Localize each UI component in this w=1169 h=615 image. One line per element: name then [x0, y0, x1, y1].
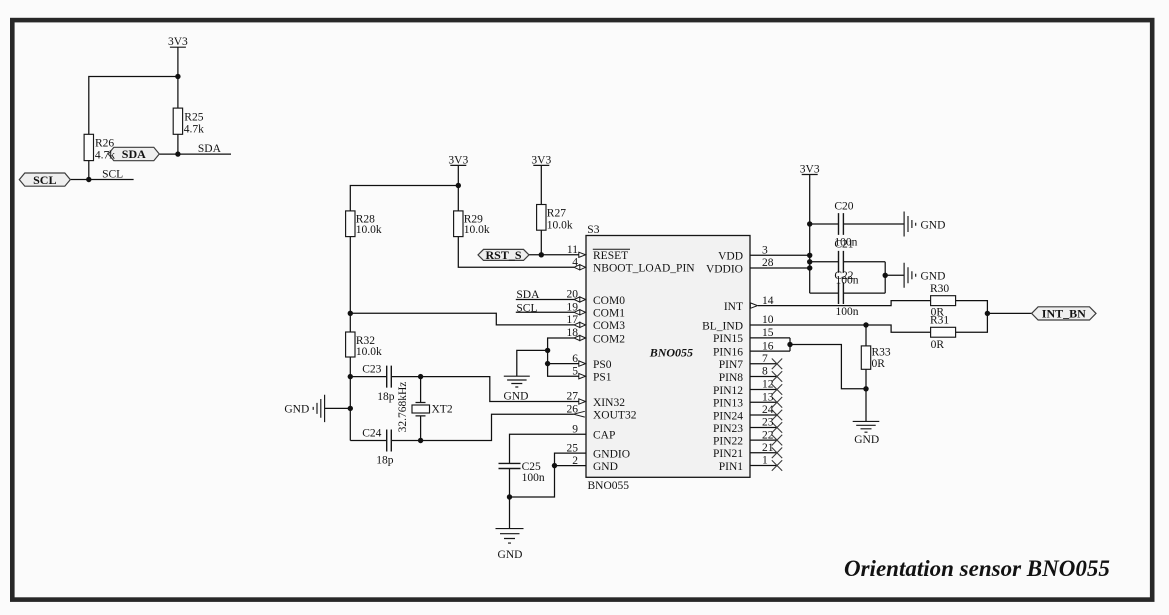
- wire 3V3 stem to rail (top-left): [177, 47, 179, 76]
- wire C21 left: [810, 261, 839, 263]
- svg-text:18: 18: [567, 327, 579, 339]
- svg-text:XOUT32: XOUT32: [593, 410, 637, 422]
- svg-text:5: 5: [572, 365, 578, 377]
- wire R25 top: [177, 77, 179, 109]
- svg-text:16: 16: [762, 340, 774, 352]
- svg-text:SDA: SDA: [516, 289, 540, 301]
- svg-text:10.0k: 10.0k: [464, 224, 490, 236]
- pin arrow out XOUT32 pin 26: [574, 411, 585, 417]
- port SDA: [108, 147, 159, 161]
- wire C22 left: [810, 292, 839, 294]
- svg-text:GND: GND: [504, 390, 529, 402]
- svg-text:10.0k: 10.0k: [356, 224, 382, 236]
- svg-text:R25: R25: [184, 112, 203, 124]
- wire BL_IND pin 10 to R31: [750, 325, 931, 332]
- wire VDDIO pin 28 stub: [750, 267, 810, 269]
- wire C23 right to XIN32 pin 27: [391, 377, 579, 402]
- op-amp U1 IC S3 BNO055 body: [586, 236, 750, 478]
- svg-text:R32: R32: [356, 335, 375, 347]
- wire GND tap (C22 bus): [885, 274, 904, 276]
- svg-text:PIN15: PIN15: [713, 333, 743, 345]
- svg-text:3: 3: [762, 245, 768, 257]
- wire C20 left: [810, 223, 839, 225]
- wire C21 right: [843, 261, 885, 263]
- svg-text:COM2: COM2: [593, 333, 625, 345]
- svg-text:INT: INT: [724, 301, 743, 313]
- svg-text:R31: R31: [930, 315, 949, 327]
- svg-text:4.7k: 4.7k: [95, 150, 115, 162]
- wire PIN15-PIN16 tie: [789, 338, 791, 351]
- svg-text:PIN1: PIN1: [719, 461, 744, 473]
- svg-text:8: 8: [762, 366, 768, 378]
- svg-text:7: 7: [762, 353, 768, 365]
- wire R29 top: [457, 186, 459, 211]
- wire RST_S to pin 11: [529, 254, 579, 256]
- svg-text:10: 10: [762, 314, 774, 326]
- svg-text:27: 27: [567, 391, 579, 403]
- wire C25 bottom: [509, 469, 511, 498]
- pin name RESET with overline: [593, 249, 630, 262]
- wire rail 3V3 to R26 branch: [89, 77, 178, 135]
- wire C25 node to ground: [509, 497, 511, 529]
- wire C21-C22 right bus: [884, 262, 886, 293]
- no-connect X marks pins 7 8 12 13 24 23 22 21 1: [772, 359, 782, 471]
- svg-text:R30: R30: [930, 283, 949, 295]
- wire PIN23 stub: [750, 427, 777, 429]
- svg-text:GND: GND: [284, 403, 309, 415]
- svg-text:PIN13: PIN13: [713, 398, 743, 410]
- svg-text:10.0k: 10.0k: [547, 219, 573, 231]
- svg-text:6: 6: [572, 353, 578, 365]
- wire R29 bottom to NBOOT_LOAD_PIN pin 4: [458, 237, 574, 268]
- svg-text:CAP: CAP: [593, 430, 615, 442]
- svg-text:BL_IND: BL_IND: [702, 320, 743, 332]
- svg-text:SCL: SCL: [102, 168, 123, 180]
- svg-text:19: 19: [567, 302, 579, 314]
- svg-text:COM3: COM3: [593, 320, 625, 332]
- svg-text:11: 11: [567, 244, 578, 256]
- ground (right of C20): [904, 212, 916, 237]
- wire C23 left: [350, 376, 386, 378]
- svg-text:100n: 100n: [522, 472, 545, 484]
- capacitor C23 plates: [387, 366, 392, 388]
- svg-text:GND: GND: [593, 461, 618, 473]
- svg-text:RST_S: RST_S: [485, 248, 521, 262]
- wire PIN8 stub: [750, 376, 777, 378]
- svg-text:28: 28: [762, 257, 774, 269]
- svg-text:3V3: 3V3: [531, 154, 551, 166]
- svg-text:C23: C23: [362, 364, 381, 376]
- resistor R26: [84, 134, 93, 160]
- svg-text:C21: C21: [834, 239, 853, 251]
- svg-text:PIN24: PIN24: [713, 410, 743, 422]
- wire 3V3 stem down decoupling bus: [809, 175, 811, 294]
- svg-text:PIN21: PIN21: [713, 448, 743, 460]
- svg-text:R27: R27: [547, 207, 566, 219]
- resistor R29: [454, 211, 463, 237]
- wire VDD pin 3 stub: [750, 254, 810, 256]
- svg-text:1: 1: [762, 455, 768, 467]
- wire XT2 bottom: [420, 416, 422, 441]
- svg-text:PIN12: PIN12: [713, 385, 743, 397]
- pin arrows input left side: [579, 252, 586, 404]
- wire GND branch (PS bus): [517, 350, 548, 376]
- power 3V3 (top-left): [168, 36, 188, 48]
- power 3V3 (over R27): [531, 154, 551, 166]
- ground (under R33): [853, 421, 880, 432]
- wire PIN16 net to R33 ground node: [790, 345, 866, 389]
- svg-text:PIN23: PIN23: [713, 423, 743, 435]
- wire PIN1 stub: [750, 465, 777, 467]
- svg-text:17: 17: [567, 314, 579, 326]
- ground (under C25): [496, 529, 524, 544]
- svg-text:3V3: 3V3: [800, 164, 820, 176]
- svg-text:18p: 18p: [376, 455, 394, 467]
- pin arrows bidirectional pins 4 20 19 17 18: [574, 265, 586, 341]
- wire PIN22 stub: [750, 439, 777, 441]
- svg-text:INT_BN: INT_BN: [1042, 307, 1086, 321]
- capacitor C24 plates: [387, 430, 392, 452]
- svg-text:21: 21: [762, 442, 774, 454]
- crystal XT2: [412, 403, 430, 416]
- svg-text:0R: 0R: [872, 358, 886, 370]
- svg-text:24: 24: [762, 404, 774, 416]
- svg-text:12: 12: [762, 379, 774, 391]
- wire R28 bottom through COM3 node to R32: [349, 237, 351, 332]
- svg-text:25: 25: [567, 442, 579, 454]
- svg-text:0R: 0R: [931, 339, 945, 351]
- capacitor C20 plates: [839, 213, 844, 235]
- wire INT pin 14 to R30: [758, 301, 931, 306]
- ground (left, crystal net): [313, 395, 324, 422]
- svg-text:XIN32: XIN32: [593, 397, 625, 409]
- resistor R25: [173, 108, 182, 134]
- wire R33 top: [865, 325, 867, 346]
- wire R25 bottom to SDA node: [177, 134, 179, 154]
- svg-text:COM0: COM0: [593, 295, 625, 307]
- svg-text:C20: C20: [834, 201, 853, 213]
- svg-text:26: 26: [567, 403, 579, 415]
- svg-text:VDDIO: VDDIO: [706, 263, 743, 275]
- wire 3V3 stem (over R29): [457, 165, 459, 185]
- svg-text:GND: GND: [921, 219, 946, 231]
- svg-text:C24: C24: [362, 428, 381, 440]
- capacitor C25 plates: [499, 463, 521, 468]
- port INT_BN: [1032, 307, 1096, 321]
- svg-text:18p: 18p: [377, 391, 395, 403]
- port SCL: [19, 173, 70, 187]
- svg-text:23: 23: [762, 417, 774, 429]
- wire 3V3 stem (over R27): [540, 165, 542, 204]
- svg-text:C22: C22: [834, 270, 853, 282]
- svg-text:GNDIO: GNDIO: [593, 448, 630, 460]
- wire SCL net: [70, 179, 133, 181]
- svg-text:9: 9: [572, 423, 578, 435]
- svg-text:VDD: VDD: [718, 251, 743, 263]
- svg-text:RESET: RESET: [593, 250, 628, 262]
- capacitor C22 plates: [839, 282, 844, 304]
- svg-text:PS0: PS0: [593, 359, 612, 371]
- wire C24 right to XOUT32 pin 26: [391, 414, 573, 440]
- wire C24 left: [350, 440, 386, 442]
- resistor R30: [931, 296, 956, 306]
- wire PIN13 stub: [750, 401, 777, 403]
- svg-text:22: 22: [762, 429, 774, 441]
- svg-text:14: 14: [762, 295, 774, 307]
- svg-text:100n: 100n: [836, 306, 859, 318]
- svg-text:R33: R33: [872, 346, 891, 358]
- svg-text:PIN16: PIN16: [713, 346, 743, 358]
- wire COM3 net to pin 17: [350, 313, 574, 325]
- capacitor C21 plates: [839, 251, 844, 273]
- wire GNDIO pin 25 down: [510, 453, 587, 497]
- svg-text:PIN22: PIN22: [713, 435, 743, 447]
- svg-text:20: 20: [567, 289, 579, 301]
- wire PIN21 stub: [750, 452, 777, 454]
- wire SDA to COM0 pin 20: [516, 299, 574, 301]
- svg-text:PS1: PS1: [593, 372, 612, 384]
- svg-text:2: 2: [572, 455, 578, 467]
- wire SCL to COM1 pin 19: [516, 311, 574, 313]
- power 3V3 (over R29): [448, 154, 468, 166]
- svg-text:SCL: SCL: [516, 303, 537, 315]
- svg-text:S3: S3: [587, 224, 599, 236]
- svg-text:BNO055: BNO055: [588, 480, 630, 492]
- ground (PS0/PS1 bus): [504, 376, 530, 387]
- svg-text:GND: GND: [854, 434, 879, 446]
- wire R32 bottom to C24 row: [349, 357, 351, 441]
- svg-text:XT2: XT2: [432, 403, 453, 415]
- svg-text:4: 4: [572, 257, 578, 269]
- wire XT2 top: [420, 377, 422, 403]
- svg-text:Orientation sensor BNO055: Orientation sensor BNO055: [844, 556, 1110, 581]
- svg-text:13: 13: [762, 392, 774, 404]
- pin arrow out INT pin 14: [750, 303, 757, 308]
- wire SDA net: [159, 153, 231, 155]
- svg-text:3V3: 3V3: [448, 154, 468, 166]
- svg-text:GND: GND: [921, 271, 946, 283]
- port RST_S: [478, 248, 529, 262]
- wire PIN7 stub: [750, 363, 777, 365]
- svg-text:3V3: 3V3: [168, 36, 188, 48]
- wire CAP pin 9 to C25: [510, 434, 587, 463]
- wire R33 bottom to ground: [865, 369, 867, 421]
- wire R26 bottom to SCL node: [88, 161, 90, 180]
- wire PIN15 stub: [750, 337, 790, 339]
- wire PIN16 stub: [750, 350, 790, 352]
- wire R27 bottom to RESET node: [540, 230, 542, 255]
- wire PIN24 stub: [750, 414, 777, 416]
- resistor R31: [931, 327, 956, 337]
- resistor R28: [346, 211, 355, 237]
- svg-text:R26: R26: [95, 138, 114, 150]
- svg-text:PIN7: PIN7: [719, 359, 744, 371]
- svg-text:COM1: COM1: [593, 308, 625, 320]
- wire GND tap (crystal net): [325, 407, 350, 409]
- svg-text:GND: GND: [498, 549, 523, 561]
- svg-text:BNO055: BNO055: [649, 346, 693, 360]
- svg-text:4.7k: 4.7k: [184, 123, 204, 135]
- svg-text:15: 15: [762, 327, 774, 339]
- svg-text:10.0k: 10.0k: [356, 346, 382, 358]
- wire R30 right to INT_BN node: [956, 301, 988, 333]
- wire PIN12 stub: [750, 389, 777, 391]
- resistor R32: [346, 332, 355, 357]
- svg-text:SDA: SDA: [198, 143, 222, 155]
- wire rail R28-R29: [350, 186, 458, 211]
- wire INT_BN node to port: [987, 312, 1031, 314]
- svg-text:SDA: SDA: [122, 147, 146, 161]
- svg-text:32.768kHz: 32.768kHz: [397, 382, 409, 433]
- wire C22 right: [843, 292, 885, 294]
- power 3V3 (right bus): [800, 164, 820, 176]
- resistor R33: [861, 346, 870, 369]
- wire COM2 pin 18 to ground bus: [548, 338, 579, 376]
- ground (right of C22 bus): [904, 263, 916, 288]
- wire C20 right to GND: [843, 223, 904, 225]
- svg-text:PIN8: PIN8: [719, 372, 744, 384]
- wire GND pin 2: [555, 465, 587, 467]
- svg-text:NBOOT_LOAD_PIN: NBOOT_LOAD_PIN: [593, 263, 695, 275]
- svg-text:SCL: SCL: [33, 173, 56, 187]
- wire PS0 pin 6 branch: [548, 363, 579, 365]
- resistor R27: [537, 205, 546, 231]
